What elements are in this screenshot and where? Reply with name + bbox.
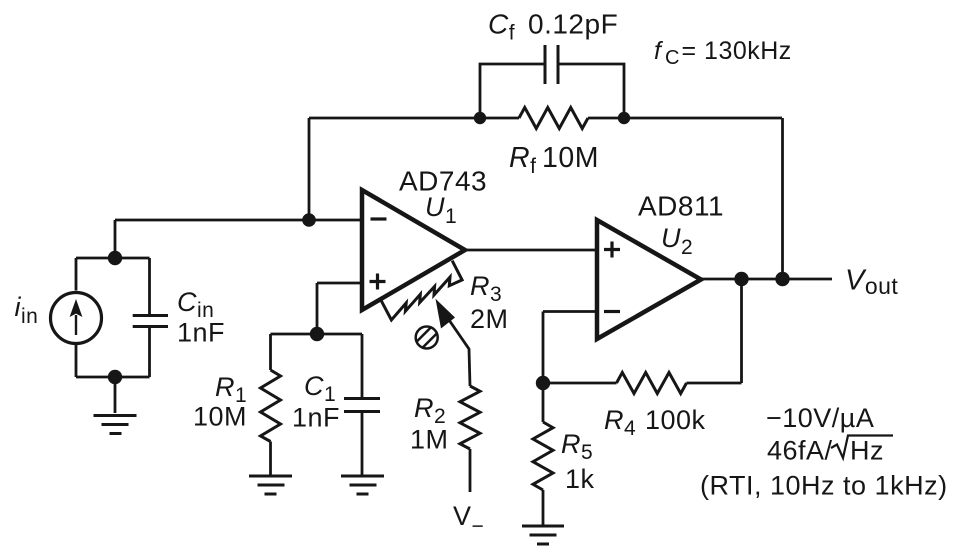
wire R1 to ground (269, 442, 272, 476)
ground (249, 476, 292, 494)
op-amp U1 (362, 190, 465, 310)
wire R2 to V- (469, 449, 472, 492)
node junction dot (302, 213, 316, 227)
resistor Rf zigzag (519, 108, 588, 129)
wire R3 wiper (448, 319, 470, 387)
capacitor Cf (545, 45, 558, 84)
current source arrow (70, 299, 83, 335)
trimmer symbol (416, 327, 438, 349)
svg-text:1k: 1k (565, 464, 595, 494)
op-amp U1 minus pin (371, 217, 387, 220)
svg-text:1M: 1M (410, 425, 449, 455)
op-amp U1 plus pin (370, 274, 386, 290)
wire source loop bottom (76, 327, 150, 414)
wire U2 inverting input (543, 312, 597, 384)
wire source loop top (76, 258, 150, 316)
svg-text:−10V/µA: −10V/µA (766, 403, 874, 433)
svg-text:U2: U2 (661, 223, 693, 259)
node junction dot (734, 272, 748, 286)
svg-text:2M: 2M (470, 304, 509, 334)
wire R4 rail (543, 382, 742, 385)
node junction dot (108, 370, 122, 384)
svg-text:Rf10M: Rf10M (509, 142, 599, 178)
wire U2 output (701, 278, 832, 281)
svg-text:(RTI, 10Hz to 1kHz): (RTI, 10Hz to 1kHz) (700, 471, 948, 501)
radical sign over Hz (831, 436, 893, 459)
wire U1 output (465, 249, 597, 252)
svg-text:R5: R5 (561, 429, 593, 464)
ground (522, 526, 564, 544)
wire feedback top rail (309, 117, 782, 120)
wire R5 top (542, 383, 545, 422)
op-amp U2 plus pin (604, 242, 620, 258)
node junction dot (536, 376, 550, 390)
svg-text:Hz: Hz (850, 436, 884, 466)
op-amp U2 minus pin (604, 310, 620, 313)
wiper arrowhead (436, 299, 456, 329)
svg-text:C1: C1 (304, 371, 336, 406)
resistor R4 zigzag (617, 373, 687, 394)
ground (94, 416, 137, 434)
svg-text:U1: U1 (425, 192, 457, 228)
wire non-inverting input (317, 283, 362, 334)
node junction dot (474, 112, 486, 124)
svg-text:V−: V− (453, 501, 484, 538)
capacitor Cin (133, 316, 168, 327)
node junction dot (775, 272, 789, 286)
svg-text:1nF: 1nF (177, 318, 225, 348)
node junction dot (108, 251, 122, 265)
svg-text:10M: 10M (193, 402, 247, 432)
svg-text:Cf0.12pF: Cf0.12pF (488, 9, 618, 45)
resistor R1 zigzag (261, 370, 281, 442)
svg-text:Vout: Vout (845, 265, 898, 300)
ground (341, 476, 384, 494)
node junction dot (618, 112, 630, 124)
svg-text:1nF: 1nF (292, 403, 340, 433)
resistor R3 zigzag (381, 261, 462, 320)
svg-text:R4100k: R4100k (604, 405, 706, 440)
resistor R2 zigzag (460, 386, 480, 449)
op-amp U2 (597, 220, 701, 339)
svg-text:46fA/: 46fA/ (767, 436, 833, 466)
node junction dot (310, 327, 324, 341)
wire Cf branch (480, 64, 624, 118)
wire output up to feedback (781, 118, 784, 279)
svg-text:iin: iin (15, 292, 39, 328)
current source iin circle (51, 293, 102, 344)
wire R5 to ground (542, 490, 545, 525)
resistor R5 zigzag (533, 422, 553, 490)
svg-text:R3: R3 (470, 271, 502, 306)
wire R1 C1 rail (271, 334, 363, 399)
wire output down to R4 (740, 279, 743, 383)
wire inverting input (115, 220, 362, 258)
wire vertical to inverting input (308, 118, 311, 220)
wire C1 to ground (361, 412, 364, 476)
capacitor C1 (344, 399, 380, 412)
svg-text:fC= 130kHz: fC= 130kHz (654, 37, 792, 69)
svg-text:R2: R2 (414, 393, 446, 428)
svg-text:AD811: AD811 (638, 191, 724, 222)
